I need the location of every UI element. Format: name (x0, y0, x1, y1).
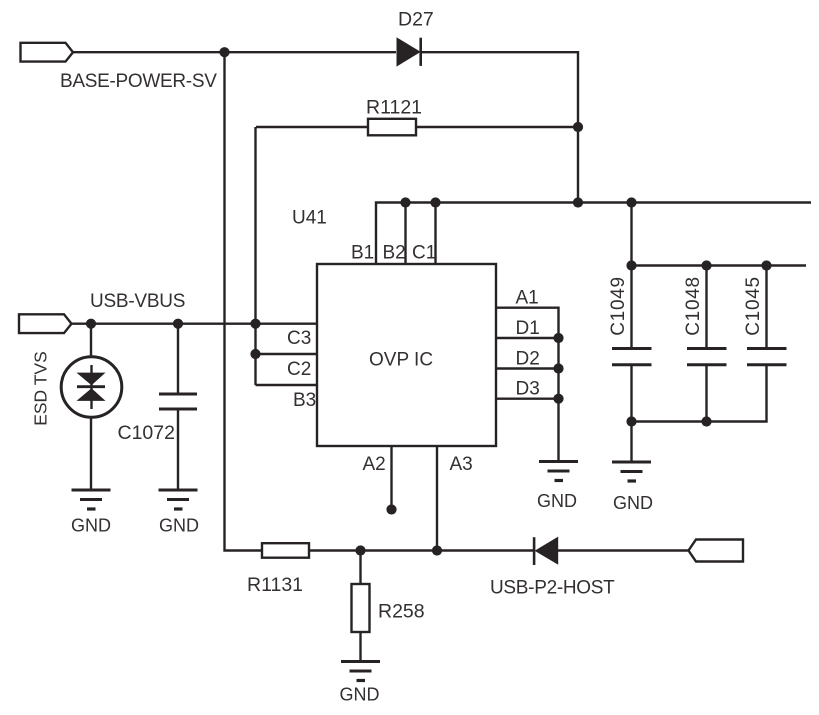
wire bus1 top horizontal (376, 203, 811, 265)
svg-text:U41: U41 (292, 208, 327, 229)
diode D27 (397, 37, 421, 66)
svg-text:C1045: C1045 (743, 276, 764, 336)
junction dot bus2 at C1049 (626, 260, 636, 270)
wire pin B3 (256, 384, 318, 386)
junction dot A3 bottom (432, 545, 442, 555)
wire pin A1 (496, 308, 559, 462)
junction dot D2 (553, 363, 563, 373)
junction dot USB-VBUS at x255.5 (250, 319, 260, 329)
resistor R1121 (256, 119, 578, 136)
diode USB-P2-HOST (534, 537, 558, 565)
capacitor C1049 (612, 266, 652, 422)
wire pin D2 (496, 367, 559, 369)
junction dot bus1 at x578 (573, 197, 583, 207)
junction dot R1121 to vertical (573, 122, 583, 132)
svg-text:C2: C2 (287, 359, 311, 380)
junction dot R258 top (355, 545, 365, 555)
resistor R1131 (262, 543, 309, 558)
svg-text:B3: B3 (293, 390, 316, 411)
svg-text:R258: R258 (378, 601, 425, 623)
junction dot bus2 at C1048 (701, 260, 711, 270)
junction dot B2 on bus1 (400, 197, 410, 207)
svg-text:GND: GND (537, 491, 577, 511)
svg-text:C1: C1 (412, 243, 436, 264)
capacitor C1072 (159, 324, 197, 490)
svg-text:R1121: R1121 (366, 97, 422, 119)
wire pin C2 (256, 353, 318, 355)
svg-text:C1048: C1048 (683, 276, 704, 336)
ground under C1072 (159, 490, 198, 509)
junction dot USB-VBUS at C1072 (173, 319, 183, 329)
transistor ESD TVS diode (61, 324, 122, 490)
svg-text:GND: GND (71, 516, 111, 536)
svg-text:A2: A2 (363, 454, 386, 475)
wire USB-VBUS to pin C3 (72, 323, 318, 325)
node A2 end dot (386, 504, 396, 514)
svg-text:A1: A1 (516, 288, 539, 309)
svg-text:B2: B2 (383, 243, 406, 264)
wire pin D3 (496, 398, 559, 400)
svg-text:R1131: R1131 (247, 574, 303, 596)
wire bus2 caps top (632, 264, 807, 266)
wire bottom from R258 node to diode (361, 549, 535, 551)
svg-text:C1072: C1072 (118, 422, 175, 444)
junction dot caps bottom at C1049 (626, 416, 636, 426)
capacitor C1045 (747, 266, 787, 365)
op-amp U41 OVP IC body (317, 264, 496, 446)
svg-text:ESD TVS: ESD TVS (31, 351, 51, 426)
junction dot bus1 at x631.5 (626, 197, 636, 207)
ground under ESD TVS (72, 490, 111, 509)
svg-text:GND: GND (613, 493, 653, 513)
wire pin A2 (390, 446, 392, 510)
capacitor C1048 (687, 266, 727, 422)
svg-text:A3: A3 (450, 454, 473, 475)
junction dot bus2 at C1045 (761, 260, 771, 270)
svg-text:D27: D27 (398, 9, 434, 31)
connector USB-P2-HOST (689, 540, 744, 562)
svg-text:GND: GND (340, 685, 380, 705)
junction dot USB-VBUS at TVS (86, 319, 96, 329)
svg-text:D3: D3 (516, 379, 540, 400)
svg-text:OVP IC: OVP IC (369, 350, 433, 371)
resistor R258 (352, 551, 370, 662)
svg-text:BASE-POWER-SV: BASE-POWER-SV (60, 71, 217, 92)
svg-text:D1: D1 (516, 318, 540, 339)
wire vertical from R1121 left lead down to USB-VBUS and B3 (254, 127, 256, 385)
ground under R258 (341, 662, 380, 681)
svg-text:C3: C3 (287, 328, 311, 349)
svg-text:D2: D2 (516, 349, 540, 370)
wire pin D1 (496, 337, 559, 339)
wire top from BASE-POWER-SV connector to D27 anode (73, 51, 396, 53)
svg-text:USB-P2-HOST: USB-P2-HOST (490, 577, 615, 598)
ground under caps (612, 462, 651, 481)
svg-text:USB-VBUS: USB-VBUS (90, 291, 185, 312)
ground under D pins (539, 462, 578, 481)
wire from D27 cathode to right corner and down to bus (421, 52, 579, 202)
wire vertical BASE-POWER net down left side (225, 52, 263, 550)
junction dot on top wire (219, 47, 229, 57)
wire diode to right connector (557, 549, 689, 551)
svg-text:GND: GND (159, 516, 199, 536)
wire pin C1 vertical (434, 203, 436, 265)
svg-text:B1: B1 (351, 243, 374, 264)
junction dot C2 at x255.5 (250, 349, 260, 359)
svg-text:C1049: C1049 (608, 276, 629, 336)
wire caps bottom bus (632, 365, 767, 422)
wire C1049 junction to ground (630, 422, 632, 463)
junction dot caps bottom at C1048 (701, 416, 711, 426)
connector BASE-POWER-SV (21, 43, 74, 62)
connector USB-VBUS (19, 314, 72, 333)
junction dot C1 on bus1 (430, 197, 440, 207)
wire pin B2 vertical (404, 203, 406, 265)
junction dot D3 (553, 394, 563, 404)
junction dot D1 (553, 333, 563, 343)
wire vertical bus1 to bus2 at x631.5 (630, 203, 632, 266)
wire R1131 right lead (309, 549, 361, 551)
wire pin A3 (436, 446, 438, 551)
